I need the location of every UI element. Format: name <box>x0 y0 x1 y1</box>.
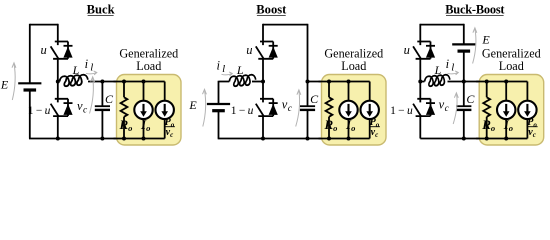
svg-text:E: E <box>481 33 490 47</box>
wire P_o branch buck-boost <box>526 82 528 139</box>
wire buck left leg lower <box>29 90 31 138</box>
title Buck-Boost <box>445 2 505 16</box>
svg-text:C: C <box>105 92 114 106</box>
wire boost output top <box>308 81 370 83</box>
svg-text:i: i <box>446 57 450 71</box>
arrow v_c buck-boost <box>453 93 458 124</box>
wire bb left leg middle <box>419 59 421 99</box>
source E battery buck <box>18 83 41 90</box>
wire load bottom rail buck <box>114 138 165 140</box>
wire bb output top <box>464 81 528 83</box>
svg-text:Load: Load <box>499 59 524 73</box>
arrow i_l buck <box>86 71 97 75</box>
wire load bottom rail buck-boost <box>476 138 527 140</box>
node I_o top buck-boost <box>504 80 508 84</box>
node boost cap bottom <box>306 137 310 141</box>
node boost mid bottom <box>261 137 265 141</box>
wire I_o branch buck-boost <box>505 82 507 139</box>
inductor L buck <box>58 75 88 86</box>
svg-text:i: i <box>217 58 221 72</box>
wire R_o branch boost <box>328 82 330 139</box>
switch 1-u buck-boost <box>413 99 435 116</box>
node I_o bottom buck-boost <box>504 137 508 141</box>
wire I_o branch buck <box>143 82 145 139</box>
node bb out top <box>462 80 466 84</box>
current source P_o/v_c buck-boost <box>518 101 536 119</box>
wire boost input corner <box>219 81 230 104</box>
current source I_o boost <box>339 101 357 119</box>
wire boost right leg upper <box>307 24 309 107</box>
label P_o/v_c fraction boost <box>369 117 380 139</box>
wire R_o branch buck-boost <box>486 82 488 139</box>
node R_o bottom buck <box>122 137 126 141</box>
node buck mid-inductor <box>56 80 60 84</box>
wire top rail boost <box>263 24 308 26</box>
svg-text:1 − u: 1 − u <box>28 105 51 117</box>
svg-text:l: l <box>222 63 225 75</box>
wire buck mid leg stub <box>57 24 59 42</box>
arrow v_c boost <box>296 90 301 127</box>
inductor L buck-boost <box>420 75 464 86</box>
resistor R_o buck-boost <box>483 97 490 117</box>
wire boost bottom rail <box>218 138 370 140</box>
svg-text:L: L <box>72 63 80 77</box>
svg-text:u: u <box>404 43 410 57</box>
svg-text:E: E <box>0 78 9 92</box>
svg-text:Load: Load <box>136 59 161 73</box>
wire boost mid leg middle <box>262 59 264 99</box>
title Boost <box>256 2 287 16</box>
label Generalized Load buck <box>119 46 178 73</box>
svg-text:C: C <box>466 92 475 106</box>
arrow i_l boost <box>222 72 233 76</box>
source E battery boost <box>207 104 230 111</box>
svg-text:L: L <box>434 63 442 77</box>
wire I_o branch boost <box>348 82 350 139</box>
resistor R_o buck <box>121 97 128 117</box>
node bb cap bottom <box>462 137 466 141</box>
wire buck mid leg middle <box>57 59 59 99</box>
load box buck-boost <box>479 75 544 146</box>
wire load top rail buck <box>114 81 165 83</box>
wire R_o branch buck <box>123 82 125 139</box>
node R_o top buck-boost <box>485 80 489 84</box>
wire P_o branch boost <box>369 82 371 139</box>
source E battery buck-boost <box>452 44 475 51</box>
svg-text:L: L <box>236 63 244 77</box>
node boost mid-inductor <box>261 80 265 84</box>
resistor R_o boost <box>326 97 333 117</box>
wire buck left leg upper <box>29 24 31 84</box>
current source P_o/v_c buck <box>156 101 174 119</box>
arrow E buck-boost <box>473 28 477 64</box>
switch u buck-boost <box>413 42 435 59</box>
wire boost mid leg stub <box>262 24 264 42</box>
node boost out top <box>306 80 310 84</box>
svg-text:l: l <box>90 61 93 73</box>
switch 1-u buck <box>51 99 73 116</box>
node buck cap top <box>100 80 104 84</box>
capacitor C buck <box>95 82 110 139</box>
wire load top rail boost <box>319 81 370 83</box>
svg-text:1 − u: 1 − u <box>231 105 254 117</box>
wire bb left leg bottom <box>419 116 421 138</box>
svg-text:Buck: Buck <box>87 2 115 16</box>
capacitor C buck-boost <box>456 106 471 138</box>
arrow i_l buck-boost <box>448 71 459 75</box>
label P_o/v_c fraction buck-boost <box>527 117 538 139</box>
label P_o/v_c fraction buck <box>164 117 175 139</box>
load box boost <box>322 75 387 146</box>
node R_o bottom boost <box>327 137 331 141</box>
svg-text:u: u <box>246 43 252 57</box>
node R_o bottom buck-boost <box>485 137 489 141</box>
wire P_o branch buck <box>164 82 166 139</box>
svg-text:l: l <box>451 61 454 73</box>
arrow E buck <box>12 63 16 100</box>
node I_o bottom boost <box>347 137 351 141</box>
label Generalized Load boost <box>324 46 383 73</box>
wire bb left leg stub <box>419 24 421 42</box>
arrow E boost <box>203 89 207 126</box>
node R_o top buck <box>122 80 126 84</box>
svg-text:C: C <box>310 92 319 106</box>
wire top rail buck-boost <box>420 24 464 26</box>
node I_o top buck <box>142 80 146 84</box>
node I_o top boost <box>347 80 351 84</box>
svg-text:Buck-Boost: Buck-Boost <box>445 2 505 16</box>
svg-text:Load: Load <box>341 59 366 73</box>
current source I_o buck-boost <box>497 101 515 119</box>
wire buck bottom rail <box>29 138 165 140</box>
wire top rail buck <box>30 24 58 26</box>
switch u boost <box>256 42 278 59</box>
wire buck output top <box>88 81 165 83</box>
node buck cap bottom <box>100 137 104 141</box>
svg-text:1 − u: 1 − u <box>390 105 413 117</box>
inductor L boost <box>229 75 263 86</box>
svg-text:u: u <box>40 43 46 57</box>
label Generalized Load buck-boost <box>482 46 541 73</box>
wire load bottom rail boost <box>319 138 370 140</box>
wire bb bottom rail <box>420 138 527 140</box>
wire bb right leg middle <box>463 51 465 106</box>
capacitor C boost <box>300 106 315 138</box>
wire buck mid leg bottom <box>57 116 59 138</box>
load box buck <box>117 75 182 146</box>
title Buck <box>87 2 115 16</box>
current source I_o buck <box>134 101 152 119</box>
node buck mid bottom <box>56 137 60 141</box>
node I_o bottom buck <box>142 137 146 141</box>
current source P_o/v_c boost <box>361 101 379 119</box>
svg-text:i: i <box>85 57 89 71</box>
wire boost mid leg bottom <box>262 116 264 138</box>
arrow v_c buck <box>90 77 95 114</box>
switch 1-u boost <box>256 99 278 116</box>
node R_o top boost <box>327 80 331 84</box>
node bb mid-inductor left <box>418 80 422 84</box>
wire load top rail buck-boost <box>476 81 527 83</box>
wire boost left leg lower <box>218 111 220 139</box>
svg-text:Boost: Boost <box>256 2 287 16</box>
wire bb right leg top <box>463 24 465 45</box>
switch u buck <box>51 42 73 59</box>
svg-text:E: E <box>188 98 197 112</box>
